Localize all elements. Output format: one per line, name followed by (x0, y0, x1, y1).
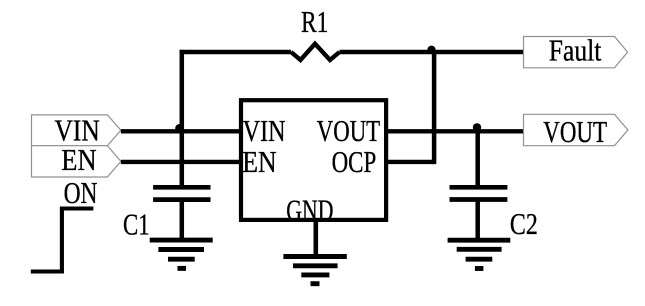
wire EN flag to IC (121, 160, 243, 164)
capacitor C1 (153, 187, 210, 199)
wire VOUT pin to VOUT flag (386, 129, 523, 133)
svg-text:C2: C2 (510, 207, 538, 241)
wire top horizontal to R1 (180, 50, 291, 54)
ground below C2 (448, 240, 511, 268)
regulator IC U1 box (241, 100, 386, 220)
svg-text:GND: GND (286, 193, 333, 227)
junction node C2 branch (473, 123, 481, 131)
junction node at R1/OCP net (427, 46, 435, 54)
flag VOUT (524, 114, 628, 149)
wire R1 to Fault flag (340, 50, 524, 54)
svg-text:VOUT: VOUT (543, 115, 607, 149)
wire GND pin down (313, 220, 318, 257)
svg-text:EN: EN (242, 145, 276, 179)
wire VOUT net down to C2 (475, 131, 480, 187)
svg-text:OCP: OCP (332, 145, 377, 179)
wire OCP pin to riser (386, 160, 434, 164)
flag VIN (32, 114, 121, 148)
wire VIN flag to IC (121, 129, 243, 133)
wire C1 to ground (180, 200, 185, 241)
svg-text:VIN: VIN (243, 114, 286, 148)
flag Fault (524, 33, 628, 68)
ON step waveform (31, 209, 94, 272)
svg-text:Fault: Fault (549, 33, 602, 67)
svg-text:C1: C1 (123, 208, 150, 242)
resistor R1 (291, 44, 340, 60)
wire OCP riser up to R1/Fault net (432, 52, 437, 164)
flag EN (32, 143, 121, 177)
svg-text:R1: R1 (301, 5, 328, 39)
wire vertical branch from R1 net down to C1 (180, 50, 185, 187)
capacitor C2 (450, 187, 508, 199)
svg-text:VOUT: VOUT (317, 114, 381, 148)
svg-text:ON: ON (64, 176, 98, 210)
svg-text:EN: EN (61, 143, 96, 177)
ground below GND pin (283, 257, 346, 284)
ground below C1 (150, 240, 213, 268)
wire C2 to ground (475, 200, 480, 241)
junction node VIN branch (175, 124, 184, 133)
